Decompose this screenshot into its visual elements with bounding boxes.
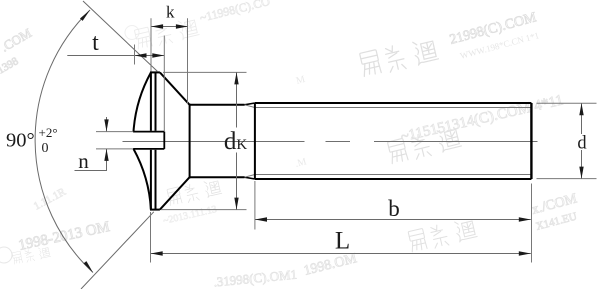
crown edge line B lower: [155, 150, 157, 210]
dim d arrow up: [579, 103, 583, 115]
watermark bottom-left logo circle: [0, 247, 12, 263]
dim k ext left: [150, 18, 152, 71]
svg-text:.COM: .COM: [0, 25, 34, 55]
dim L arrow left: [151, 251, 163, 255]
dim n arrow up: [104, 149, 108, 161]
thread runout lower to crest: [245, 177, 255, 179]
dim dk line upper: [236, 72, 238, 127]
dim dk ext top: [163, 71, 247, 73]
dim d ext top: [537, 102, 597, 104]
dim b arrow right: [519, 217, 531, 221]
watermark logo chars top-right: [359, 36, 439, 78]
watermark logo circle top-center: [125, 26, 139, 40]
svg-text:dK: dK: [224, 128, 248, 155]
watermark right-low texts: [530, 191, 579, 233]
dim t ext left: [134, 45, 136, 65]
dim dk arrow down: [234, 198, 238, 210]
dim k arrow right: [176, 24, 188, 28]
dim dk arrow up: [234, 72, 238, 84]
centerline (screw axis): [123, 141, 305, 143]
crown edge line B upper: [155, 72, 157, 130]
svg-text:k: k: [166, 3, 175, 22]
thread crest upper: [255, 102, 532, 104]
thread root lower: [255, 174, 532, 176]
slot lower edge: [133, 148, 164, 150]
svg-text:~115151314(C).COM 4*11: ~115151314(C).COM 4*11: [399, 92, 565, 145]
slot upper edge: [133, 131, 164, 133]
thread runout upper to root: [245, 105, 255, 108]
crown edge line A upper: [150, 72, 152, 130]
watermark bottom-left chars: [12, 245, 51, 265]
svg-text:.31998(C).OM1: .31998(C).OM1: [213, 267, 298, 289]
thread runout upper to crest: [245, 103, 255, 105]
thread root upper: [255, 107, 532, 109]
svg-text:1398: 1398: [0, 55, 21, 77]
head dome arc lower: [134, 149, 151, 210]
dim t ext right: [163, 36, 165, 132]
dim b arrow left: [255, 217, 267, 221]
watermark logo chars mid-bottom: [408, 217, 478, 253]
svg-text:L: L: [335, 227, 350, 254]
angle arc arrowhead top: [80, 9, 91, 21]
crown edge line A lower: [150, 150, 152, 210]
dim b line: [255, 219, 531, 221]
angle arc arrowhead bottom: [84, 261, 95, 273]
dim b right ext shared: [531, 184, 533, 263]
head-shank junction: [189, 104, 191, 178]
dim b ext left (below thread start): [254, 181, 256, 230]
thread crest lower: [255, 178, 532, 180]
thread runout lower to root: [245, 175, 255, 178]
dim d line upper: [581, 103, 583, 134]
dim k line: [151, 26, 188, 28]
thread start line: [254, 103, 256, 179]
dim d arrow down: [579, 167, 583, 179]
dim t arrow right: [152, 53, 164, 57]
dim d ext bottom: [537, 178, 597, 180]
svg-text:b: b: [388, 196, 400, 221]
watermark logo chars b-area: [167, 178, 223, 207]
dim L arrow right: [519, 251, 531, 255]
shank lower line: [190, 176, 245, 178]
watermark left edge texts: [0, 25, 34, 77]
countersunk cone upper: [160, 72, 190, 104]
dim k ext right: [187, 18, 189, 104]
cone extension line upper (90 deg construction): [83, 1, 157, 71]
dim t line: [67, 55, 164, 57]
countersunk cone lower: [160, 177, 190, 209]
head dome arc upper: [134, 73, 151, 132]
cone extension line lower (90 deg construction): [81, 212, 154, 289]
svg-text:0: 0: [42, 141, 49, 156]
slot bottom: [163, 132, 165, 149]
dim L ext left: [150, 212, 152, 263]
svg-text:d: d: [577, 134, 587, 154]
dim n arrow down: [104, 119, 108, 131]
svg-text:+2°: +2°: [39, 125, 58, 140]
dim L line: [151, 253, 531, 255]
slot extension lines: [96, 131, 133, 133]
svg-text:.M: .M: [294, 156, 308, 170]
head top cap: [150, 71, 160, 73]
dim t arrow left: [135, 53, 147, 57]
dim k arrow left: [151, 24, 163, 28]
svg-text:1.11.1R: 1.11.1R: [32, 186, 69, 213]
dim n stem upper: [106, 117, 108, 131]
watermark logo chars top-center: [134, 16, 200, 50]
shank end cap: [530, 103, 532, 179]
svg-text:90°: 90°: [6, 129, 35, 151]
angle dimension arc: [35, 10, 93, 273]
shank upper line: [190, 104, 245, 106]
dim dk ext bottom: [161, 209, 247, 211]
svg-text:M: M: [295, 74, 307, 87]
svg-text:n: n: [78, 149, 89, 173]
dim d line lower: [581, 150, 583, 179]
svg-text:1998.OM: 1998.OM: [302, 251, 359, 279]
dim dk line lower: [236, 153, 238, 210]
dim n stem lower + leader: [75, 149, 107, 171]
svg-text:~11998(C).CO: ~11998(C).CO: [198, 0, 271, 25]
svg-text:t: t: [92, 30, 99, 56]
svg-text:1998-2013 OM: 1998-2013 OM: [17, 219, 111, 254]
watermark logo chars mid-right: [387, 125, 462, 165]
svg-text:~2013.111.13: ~2013.111.13: [162, 204, 218, 227]
head bottom cap: [150, 209, 160, 211]
